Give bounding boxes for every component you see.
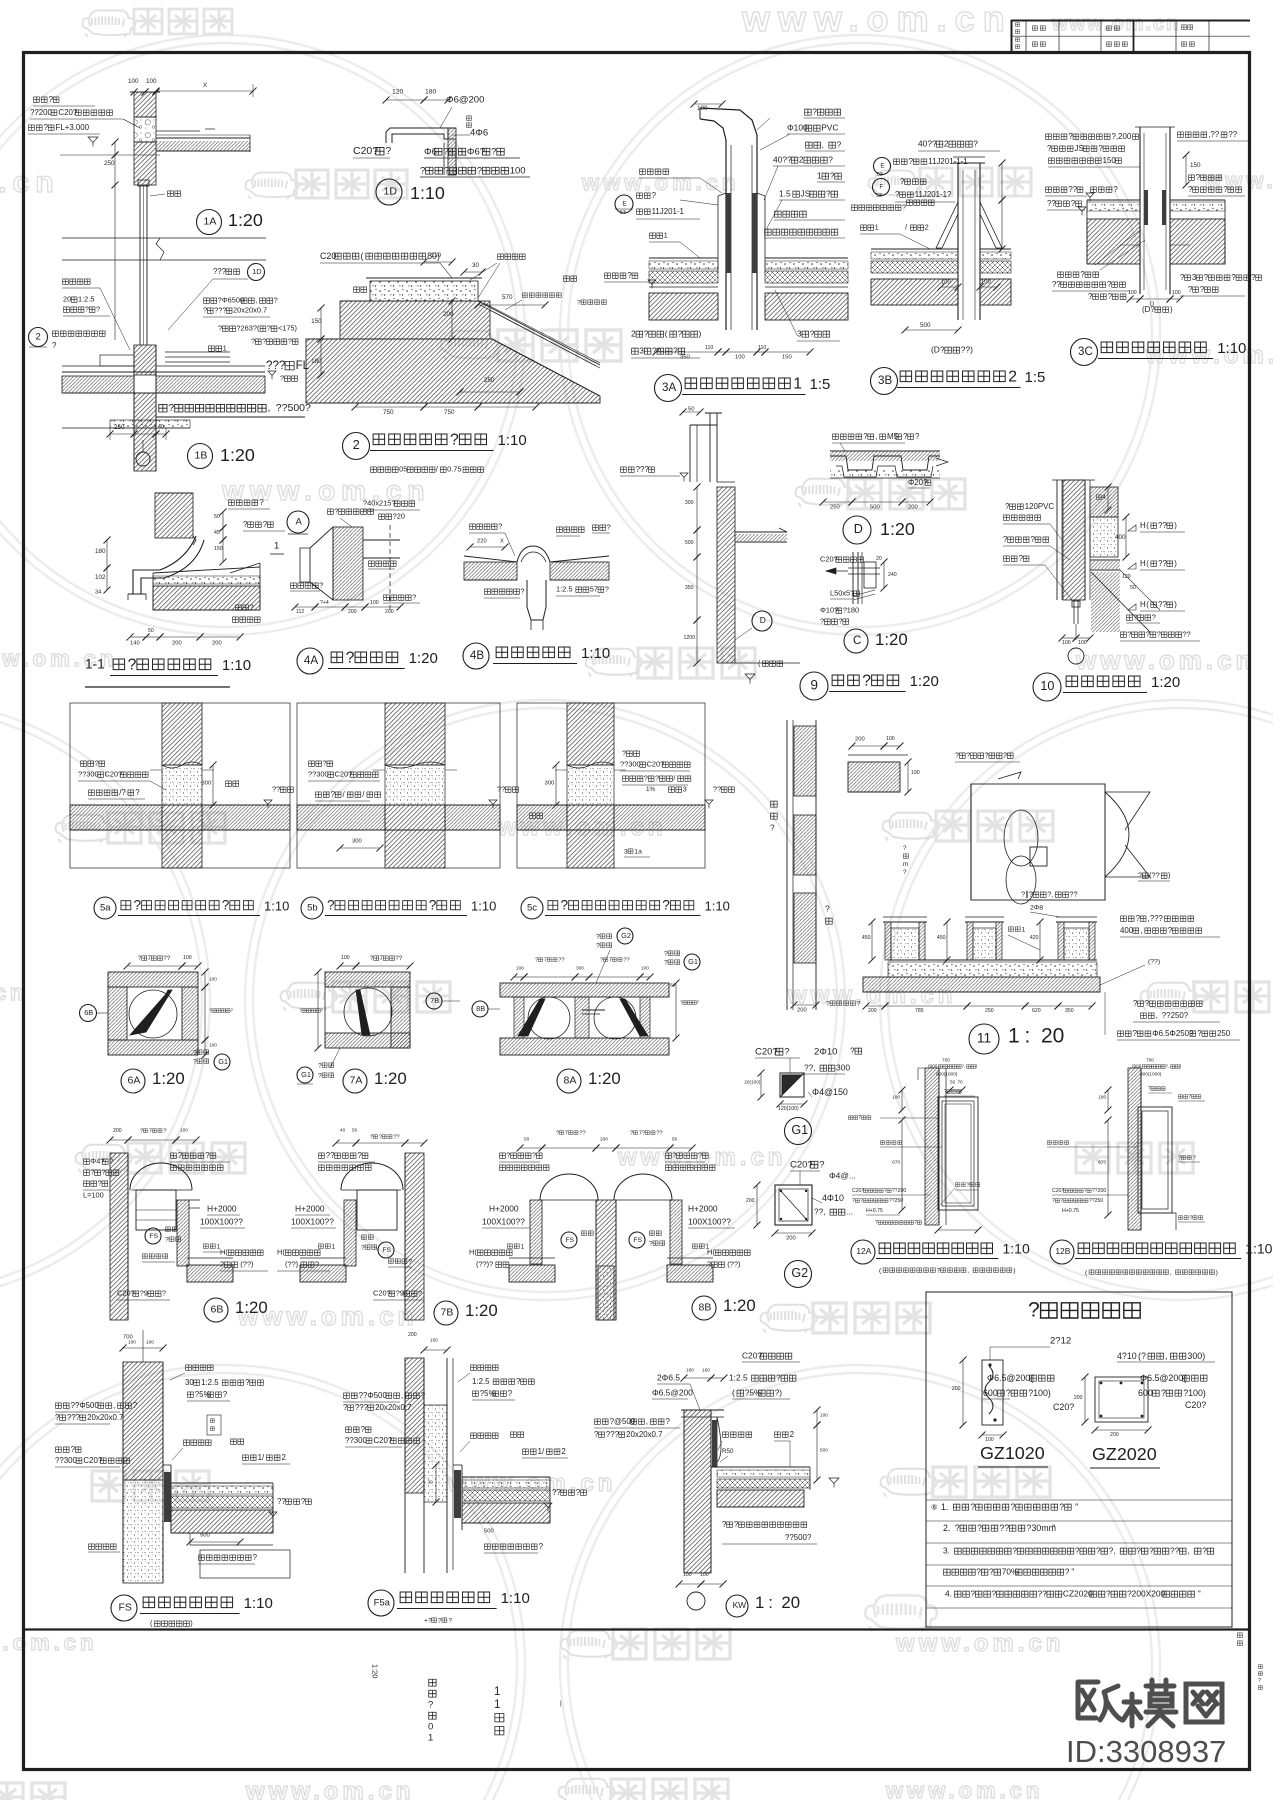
svg-text:L50x5?: L50x5? (830, 589, 854, 598)
svg-text:150: 150 (311, 318, 322, 325)
svg-text:Φ6.5@200(: Φ6.5@200( (987, 1373, 1033, 1383)
detail G2 tie column section (775, 1185, 812, 1225)
svg-text:?: ? (109, 1157, 113, 1166)
detail 9 parapet/ladder wall (690, 413, 735, 663)
svg-text:20: 20 (63, 295, 71, 304)
svg-text:220: 220 (477, 539, 487, 545)
svg-text:200: 200 (348, 609, 357, 615)
1B circle-2 note (29, 328, 106, 351)
svg-text:?: ? (734, 1520, 739, 1529)
svg-text:): ) (1174, 600, 1177, 609)
big site watermark 欧模网 (1078, 1680, 1222, 1726)
NW label (726, 1593, 800, 1617)
svg-text:): ) (1013, 1267, 1015, 1274)
svg-text:?: ? (448, 1617, 452, 1624)
svg-text:0: 0 (428, 1721, 433, 1732)
svg-text:2?12: 2?12 (1050, 1335, 1071, 1346)
svg-text:www.om.cn: www.om.cn (0, 166, 60, 199)
svg-text:?9: ?9 (140, 1289, 148, 1298)
1-1 slab (153, 563, 260, 610)
svg-text:140: 140 (130, 641, 140, 647)
svg-text:??300: ??300 (620, 760, 641, 769)
svg-text:?: ? (1052, 1198, 1055, 1204)
svg-text:?: ? (385, 145, 391, 157)
title block (1011, 20, 1250, 52)
svg-text:?: ? (1028, 1298, 1040, 1321)
5a label (94, 897, 289, 919)
svg-text:1: 1 (1008, 1024, 1020, 1047)
svg-text:350: 350 (680, 355, 690, 361)
svg-text:?: ? (1133, 999, 1138, 1008)
svg-text:100X100??: 100X100?? (291, 1217, 334, 1227)
svg-text:100: 100 (683, 1572, 692, 1578)
svg-text:C20?: C20? (1052, 1188, 1065, 1194)
svg-text:180: 180 (892, 1095, 900, 1100)
svg-text:2: 2 (36, 331, 41, 342)
svg-text:?: ? (318, 1072, 322, 1079)
svg-text:A: A (296, 516, 303, 527)
svg-text:??: ?? (1158, 559, 1167, 568)
1B floor slabs (62, 352, 265, 428)
svg-text:??: ?? (393, 1135, 400, 1141)
svg-text:1:20: 1:20 (588, 1069, 621, 1088)
svg-text:?: ? (1149, 1546, 1154, 1556)
svg-text:12A: 12A (856, 1246, 871, 1256)
svg-text:H: H (1140, 559, 1146, 568)
svg-text:?: ? (49, 95, 54, 104)
svg-text:(900: (900 (1132, 1064, 1142, 1069)
svg-text:?: ? (1146, 630, 1150, 639)
svg-text:2: 2 (799, 155, 804, 165)
svg-text:50: 50 (672, 1137, 678, 1142)
svg-text:?: ? (44, 123, 49, 132)
svg-text:?: ? (1258, 1678, 1261, 1684)
svg-text:50: 50 (1130, 585, 1136, 591)
svg-text:1:20: 1:20 (723, 1296, 756, 1315)
svg-text:??: ?? (579, 1131, 586, 1137)
svg-text:500: 500 (685, 540, 694, 546)
svg-text:?: ? (776, 1373, 781, 1383)
svg-text:?: ? (95, 759, 99, 768)
svg-text:C20?: C20? (755, 1046, 778, 1057)
svg-text:?: ? (662, 898, 670, 913)
svg-text:?: ? (498, 522, 502, 531)
svg-text:2: 2 (790, 1430, 794, 1439)
1-1 notes (214, 498, 285, 622)
svg-text:?: ? (784, 1046, 789, 1057)
svg-text:?: ? (193, 1058, 197, 1065)
3B label (871, 368, 1046, 395)
svg-text:?: ? (358, 1151, 363, 1160)
svg-text:?: ? (825, 904, 830, 914)
svg-text:?: ? (245, 1378, 250, 1387)
svg-text:?: ? (664, 959, 668, 966)
detail 1A wall section (130, 92, 160, 185)
svg-text:?,: ?, (1109, 1546, 1116, 1556)
svg-text:<175): <175) (278, 324, 297, 333)
svg-text:?: ? (267, 324, 271, 333)
svg-text:7: 7 (609, 958, 612, 964)
svg-text:?: ? (438, 1617, 442, 1624)
svg-text:1%: 1% (646, 786, 656, 793)
3A right leader notes (757, 107, 845, 238)
svg-text:H+0.75: H+0.75 (866, 1208, 883, 1214)
svg-text:C: C (853, 634, 861, 647)
svg-text:?: ? (944, 1089, 947, 1095)
detail 3C pipe through slab (1135, 127, 1175, 294)
svg-text:H(: H( (469, 1248, 477, 1257)
svg-text:200: 200 (443, 311, 454, 318)
svg-text:7B: 7B (430, 996, 439, 1005)
svg-text:?: ? (649, 1240, 653, 1247)
svg-text:6B: 6B (84, 1008, 93, 1017)
svg-text:1: 1 (664, 231, 668, 240)
svg-text:110: 110 (758, 345, 766, 351)
3C dims (1127, 290, 1184, 314)
svg-text:?,200: ?,200 (1112, 132, 1132, 141)
svg-text:G2: G2 (791, 1266, 808, 1280)
svg-text:?: ? (1113, 185, 1118, 194)
svg-text:?: ? (992, 1589, 997, 1599)
svg-text:1: 1 (494, 1698, 500, 1711)
1A parapet dims (128, 78, 257, 97)
svg-text:???: ??? (636, 465, 650, 474)
svg-text:120: 120 (1122, 574, 1131, 580)
svg-text:6B: 6B (211, 1304, 224, 1316)
svg-text:45: 45 (214, 530, 220, 536)
12A dims/notes (848, 1058, 981, 1234)
svg-text:?: ? (71, 1445, 76, 1454)
svg-text:?: ? (903, 432, 908, 441)
svg-text:?: ? (138, 955, 142, 962)
svg-text:350: 350 (685, 585, 694, 591)
svg-text:?: ? (826, 189, 831, 199)
svg-text:20: 20 (876, 556, 882, 562)
F5a label (368, 1590, 530, 1624)
svg-text:?: ? (622, 749, 626, 758)
svg-text:300: 300 (576, 966, 584, 971)
svg-text:?: ? (850, 1046, 855, 1056)
svg-text:11: 11 (977, 1031, 991, 1046)
svg-text:5a: 5a (100, 902, 111, 913)
svg-text:?: ? (860, 1198, 863, 1204)
svg-text:H(: H( (707, 1248, 715, 1257)
svg-text:1:10: 1:10 (1217, 340, 1246, 357)
svg-text:): ) (190, 1619, 192, 1628)
svg-text:,: , (268, 402, 271, 414)
4B label (463, 643, 610, 669)
svg-text:?: ? (135, 788, 140, 797)
svg-text:300): 300) (1187, 1351, 1205, 1361)
svg-text:?: ? (516, 1377, 521, 1386)
svg-text:?: ? (1010, 1502, 1015, 1512)
svg-text:?: ? (361, 1425, 366, 1434)
svg-text:?: ? (678, 329, 683, 339)
svg-text:KW: KW (733, 1600, 747, 1610)
svg-text:?: ? (1088, 292, 1093, 301)
svg-text:,: , (1187, 1546, 1189, 1556)
svg-text:??300: ??300 (345, 1436, 368, 1445)
svg-text:100: 100 (1078, 640, 1087, 646)
svg-text:X: X (500, 539, 504, 545)
detail NW corner (681, 1410, 724, 1573)
svg-text:G1: G1 (218, 1057, 228, 1066)
svg-text:?: ? (346, 649, 355, 666)
svg-text:200: 200 (786, 1236, 796, 1242)
svg-text:?: ? (857, 1000, 861, 1007)
svg-text:?: ? (852, 1198, 855, 1204)
svg-text:?,: ?, (1165, 1064, 1169, 1069)
svg-text:": " (1052, 1523, 1055, 1533)
svg-text:FS: FS (565, 1237, 574, 1244)
svg-text:?: ? (1084, 1188, 1087, 1194)
svg-text:?: ? (251, 337, 255, 346)
svg-text:11J201-1: 11J201-1 (652, 207, 684, 216)
svg-text:?180: ?180 (843, 606, 859, 615)
svg-text:3A: 3A (662, 381, 676, 394)
10 concrete block (1090, 487, 1160, 632)
detail 2 insulation band (480, 303, 600, 366)
svg-text:785: 785 (915, 1008, 924, 1014)
svg-text:?: ? (178, 1151, 183, 1160)
9 notes (620, 465, 800, 683)
svg-text:2: 2 (353, 438, 360, 452)
7B dims/notes (277, 1128, 428, 1300)
svg-text:750: 750 (444, 409, 455, 416)
svg-text:?: ? (315, 1260, 319, 1269)
svg-text:50: 50 (524, 1137, 530, 1142)
svg-text:1:10: 1:10 (581, 645, 610, 662)
svg-text:?: ? (863, 432, 868, 441)
svg-text:?: ? (985, 751, 989, 760)
svg-text:1: 1 (332, 1243, 336, 1250)
svg-text:?: ? (506, 1151, 510, 1160)
svg-text:G2: G2 (621, 931, 631, 940)
svg-text:7: 7 (544, 958, 547, 964)
svg-text:Φ6.5@200: Φ6.5@200 (652, 1388, 693, 1398)
svg-text:?100): ?100) (1183, 1388, 1206, 1398)
svg-text:4.: 4. (945, 1589, 952, 1599)
svg-text:100: 100 (209, 1043, 217, 1048)
svg-text:ID:3308937: ID:3308937 (1066, 1734, 1226, 1769)
svg-text:Φ4@150: Φ4@150 (812, 1087, 848, 1097)
svg-text:1:10: 1:10 (222, 657, 251, 674)
svg-text:H: H (1140, 521, 1146, 530)
3B dims (902, 160, 1006, 355)
detail FS roof flashing (123, 1362, 171, 1583)
svg-text:?: ? (644, 329, 649, 339)
svg-text:?: ? (539, 1542, 544, 1551)
svg-text:?: ? (594, 1430, 599, 1439)
3C notes right (1177, 130, 1262, 296)
svg-text:FL+3.000: FL+3.000 (56, 123, 90, 132)
NW slab (711, 1417, 810, 1507)
5b notes (308, 759, 518, 852)
svg-text:1:20: 1:20 (152, 1069, 185, 1088)
svg-text:350: 350 (1065, 1008, 1074, 1014)
1B left notes (62, 279, 130, 350)
svg-text:?: ? (1168, 926, 1173, 935)
svg-text:500: 500 (820, 1448, 828, 1453)
svg-text:?: ? (858, 1115, 861, 1121)
svg-text:11J201-1?: 11J201-1? (915, 190, 952, 199)
svg-text:?: ? (1108, 292, 1113, 301)
svg-text:?: ? (826, 1000, 830, 1007)
svg-text:H+2000: H+2000 (295, 1204, 325, 1214)
C notes (820, 555, 897, 626)
1A leader notes (28, 95, 160, 155)
svg-text:FS: FS (119, 1602, 132, 1614)
detail 1D coping (386, 128, 456, 175)
svg-text:1:10: 1:10 (501, 1590, 530, 1607)
svg-text:200: 200 (855, 737, 865, 743)
svg-text:GZ1020: GZ1020 (980, 1443, 1045, 1463)
svg-text:??: ?? (1228, 130, 1237, 139)
svg-text:??300: ??300 (78, 770, 99, 779)
svg-text:": " (1071, 1567, 1074, 1577)
svg-text:?: ? (955, 751, 959, 760)
11 section notes right (1100, 914, 1240, 1040)
detail 11 shaft wall (plan left) (770, 720, 861, 1014)
detail F5a roof flashing 2 (405, 1358, 462, 1573)
svg-text:?: ? (644, 774, 648, 783)
svg-text:1:20: 1:20 (875, 630, 908, 649)
svg-text:30: 30 (185, 1378, 194, 1387)
1B right notes (168, 264, 310, 383)
svg-text:?: ? (707, 1260, 711, 1269)
svg-text:??: ?? (1047, 199, 1056, 208)
svg-text:250: 250 (484, 377, 495, 384)
detail C bracket (826, 552, 880, 604)
detail 1-1 drain outlet section (155, 493, 196, 545)
9 canopy (735, 528, 787, 542)
svg-text:200: 200 (1074, 1395, 1083, 1401)
svg-text:180: 180 (1098, 1095, 1106, 1100)
svg-text:??Φ500: ??Φ500 (359, 1391, 388, 1400)
svg-text:?: ? (101, 1168, 105, 1177)
svg-text:?: ? (331, 790, 336, 799)
svg-text:1.5: 1.5 (779, 189, 791, 199)
svg-text:C20?: C20? (820, 555, 838, 564)
svg-text:?: ? (875, 1220, 878, 1226)
svg-text:1/: 1/ (538, 1447, 545, 1456)
svg-text:?: ? (299, 1008, 302, 1013)
svg-text:53: 53 (876, 193, 882, 199)
svg-text:1:10: 1:10 (1245, 1240, 1272, 1256)
GZ2020 diagram (1074, 1351, 1215, 1468)
svg-text:100: 100 (1128, 290, 1137, 296)
svg-text:?: ? (1223, 185, 1228, 194)
svg-text:30: 30 (428, 1480, 434, 1485)
svg-text:C20?: C20? (335, 770, 353, 779)
1D dims (383, 88, 489, 138)
12A label (851, 1240, 1030, 1274)
svg-text:?: ? (1098, 144, 1103, 153)
detail 3B pipe penetration roof 2 (936, 157, 1002, 320)
svg-text:?: ? (327, 898, 335, 913)
4B notes (467, 522, 611, 598)
svg-text:???: ??? (214, 306, 226, 315)
svg-text:?: ? (837, 140, 842, 150)
svg-text:Φ4@...: Φ4@... (829, 1171, 856, 1181)
svg-text:0.75: 0.75 (447, 465, 461, 474)
svg-text:4Φ6: 4Φ6 (470, 127, 488, 138)
1-1 pipe curve (128, 536, 204, 600)
svg-text:250: 250 (830, 505, 840, 511)
bottom strip divider (25, 1628, 1249, 1630)
svg-text:3: 3 (797, 329, 802, 339)
svg-text:?: ? (1107, 280, 1112, 289)
svg-text:200: 200 (1110, 1432, 1119, 1438)
svg-text:?: ? (162, 1289, 166, 1298)
svg-text:?: ? (334, 507, 338, 516)
svg-text:7: 7 (380, 955, 384, 962)
svg-text:?: ? (895, 190, 900, 199)
svg-text:110: 110 (431, 252, 442, 259)
svg-text:?: ? (263, 520, 268, 529)
svg-text:C20?: C20? (353, 145, 378, 157)
svg-text:?: ? (418, 1289, 422, 1298)
detail 5a cross section (70, 703, 290, 868)
svg-text:600: 600 (983, 1388, 998, 1398)
svg-text:?: ? (970, 1502, 975, 1512)
svg-text:7?: 7? (639, 1131, 646, 1137)
svg-text:1:10: 1:10 (244, 1595, 273, 1612)
1A text 洁水 (150, 191, 181, 196)
svg-text:?: ? (1161, 1388, 1166, 1398)
svg-text:?: ? (319, 581, 323, 590)
svg-text:??250: ??250 (889, 1198, 904, 1204)
svg-text:50: 50 (670, 983, 676, 988)
svg-text:53: 53 (877, 172, 883, 178)
svg-text:?: ? (900, 177, 905, 186)
svg-text:www.om.cn: www.om.cn (1075, 645, 1256, 675)
svg-text:??: ?? (1052, 280, 1061, 289)
detail 12A hydrant niche (918, 1068, 978, 1225)
svg-text:?: ? (577, 299, 581, 306)
svg-text:/?: /? (119, 788, 126, 797)
svg-text:1:20: 1:20 (409, 650, 438, 667)
svg-text:www.om.cn: www.om.cn (1051, 13, 1180, 35)
svg-text:8A: 8A (564, 1075, 577, 1087)
1A window lines (138, 180, 149, 345)
svg-text:4B: 4B (470, 649, 484, 662)
svg-text:??: ?? (1158, 600, 1167, 609)
svg-text:?: ? (1133, 613, 1137, 622)
svg-text:50: 50 (950, 1080, 956, 1085)
3C label (1071, 339, 1247, 366)
svg-text:100: 100 (641, 966, 649, 971)
svg-text:?40x215?: ?40x215? (363, 499, 395, 508)
svg-text:www.om.cn: www.om.cn (895, 1630, 1064, 1657)
svg-text:R50: R50 (722, 1448, 734, 1455)
svg-text:??200: ??200 (30, 108, 53, 117)
8B label (692, 1296, 756, 1320)
svg-text:?: ? (301, 1497, 306, 1506)
svg-text:1:2.5: 1:2.5 (472, 1377, 490, 1386)
svg-text:7: 7 (565, 1131, 568, 1137)
svg-text:,: , (875, 432, 877, 441)
svg-text:??,: ??, (814, 1207, 826, 1217)
svg-text:??300: ??300 (55, 1456, 78, 1465)
3A label (655, 375, 831, 402)
svg-text:100: 100 (128, 1340, 136, 1345)
svg-text:100: 100 (941, 280, 951, 286)
svg-text:???: ??? (355, 1403, 369, 1412)
svg-text:120PVC: 120PVC (1025, 502, 1055, 511)
svg-text:1:20: 1:20 (235, 1298, 268, 1317)
1D notes (353, 145, 530, 177)
